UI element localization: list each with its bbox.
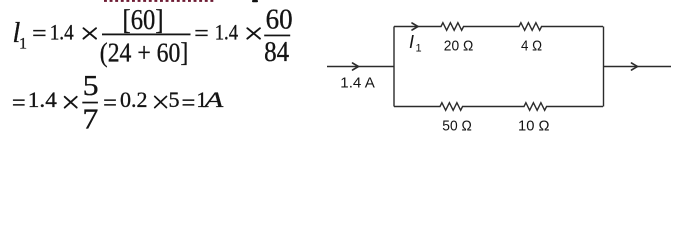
svg-text:=: = [103,90,117,115]
svg-text:20 Ω: 20 Ω [444,38,474,55]
svg-text:1: 1 [416,43,422,55]
svg-text:1.4: 1.4 [28,87,57,112]
svg-text:84: 84 [264,36,289,68]
svg-text:1.4: 1.4 [215,19,238,44]
svg-text:=: = [12,90,26,115]
svg-text:4 Ω: 4 Ω [521,38,542,55]
svg-text:5: 5 [169,87,180,112]
svg-text:(24 + 60]: (24 + 60] [100,37,189,68]
svg-text:=: = [182,90,196,115]
svg-text:10 Ω: 10 Ω [518,117,550,134]
svg-text:[60]: [60] [123,5,164,36]
svg-text:50 Ω: 50 Ω [442,117,472,134]
svg-text:1.4: 1.4 [50,19,74,44]
svg-text:=: = [194,21,209,46]
svg-text:1.4 A: 1.4 A [340,75,375,92]
svg-text:=: = [32,21,47,46]
svg-text:60: 60 [266,5,293,36]
svg-text:5: 5 [83,70,99,102]
svg-text:I: I [409,32,414,52]
svg-text:A: A [202,87,224,112]
svg-text:1: 1 [19,35,27,52]
svg-text:0.2: 0.2 [120,87,148,112]
svg-text:7: 7 [82,103,98,135]
